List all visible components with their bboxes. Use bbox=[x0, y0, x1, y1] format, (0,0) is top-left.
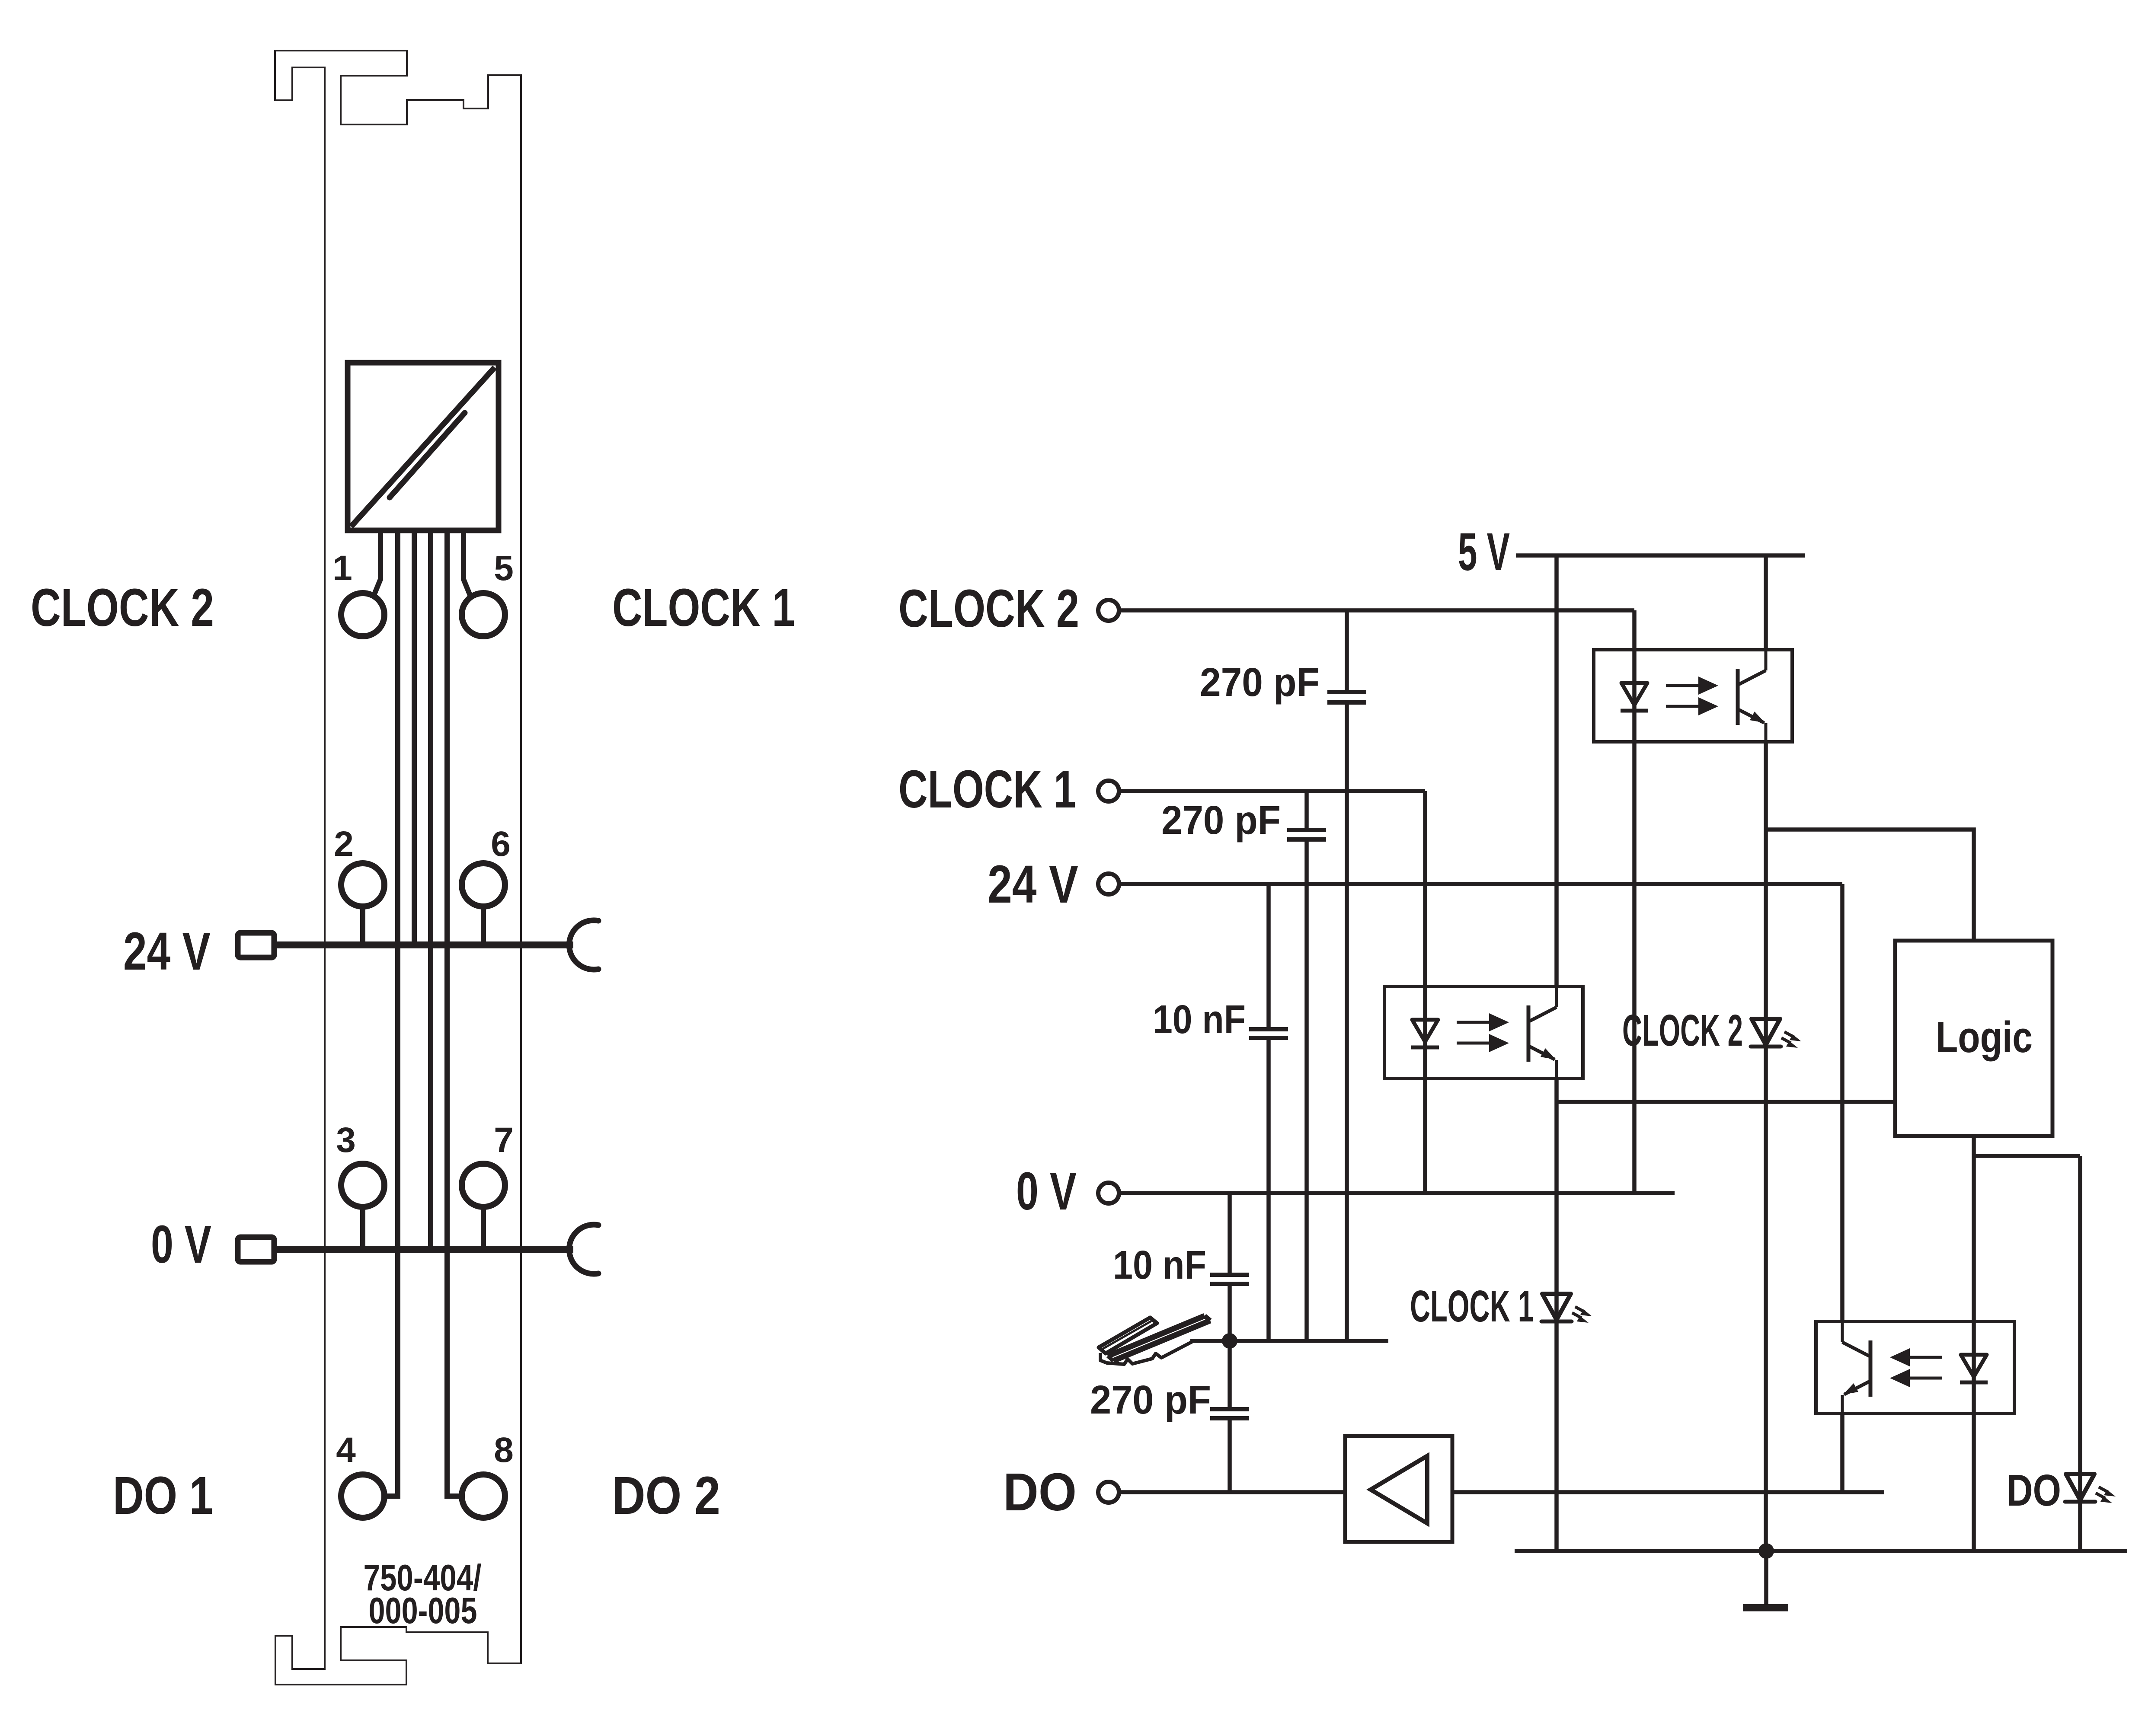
svg-text:10 nF: 10 nF bbox=[1153, 997, 1246, 1042]
svg-text:2: 2 bbox=[334, 824, 354, 864]
svg-text:270 pF: 270 pF bbox=[1161, 798, 1281, 842]
svg-text:6: 6 bbox=[491, 824, 511, 864]
svg-text:DO: DO bbox=[2007, 1465, 2061, 1515]
svg-text:3: 3 bbox=[336, 1120, 356, 1160]
svg-text:4: 4 bbox=[336, 1430, 356, 1470]
svg-text:270 pF: 270 pF bbox=[1200, 660, 1320, 705]
svg-text:CLOCK 2: CLOCK 2 bbox=[31, 578, 214, 638]
svg-text:Logic: Logic bbox=[1936, 1013, 2033, 1062]
svg-text:24 V: 24 V bbox=[988, 855, 1078, 914]
svg-text:CLOCK 1: CLOCK 1 bbox=[898, 760, 1076, 819]
svg-text:CLOCK 2: CLOCK 2 bbox=[898, 579, 1079, 638]
svg-text:DO: DO bbox=[1003, 1463, 1077, 1522]
svg-text:7: 7 bbox=[494, 1120, 514, 1160]
svg-text:CLOCK 2: CLOCK 2 bbox=[1622, 1005, 1743, 1055]
svg-text:1: 1 bbox=[332, 549, 352, 588]
svg-text:CLOCK 1: CLOCK 1 bbox=[1410, 1281, 1534, 1331]
svg-text:24 V: 24 V bbox=[123, 922, 211, 981]
svg-text:10 nF: 10 nF bbox=[1113, 1242, 1206, 1287]
svg-text:000-005: 000-005 bbox=[369, 1590, 477, 1631]
svg-text:8: 8 bbox=[494, 1430, 514, 1470]
svg-text:0 V: 0 V bbox=[151, 1215, 211, 1274]
svg-text:5: 5 bbox=[494, 549, 514, 588]
svg-text:0 V: 0 V bbox=[1016, 1162, 1077, 1221]
svg-text:5 V: 5 V bbox=[1458, 523, 1510, 582]
svg-text:CLOCK 1: CLOCK 1 bbox=[612, 578, 795, 638]
svg-text:270 pF: 270 pF bbox=[1090, 1377, 1211, 1422]
svg-text:DO 1: DO 1 bbox=[113, 1466, 213, 1525]
svg-text:DO 2: DO 2 bbox=[612, 1466, 720, 1525]
